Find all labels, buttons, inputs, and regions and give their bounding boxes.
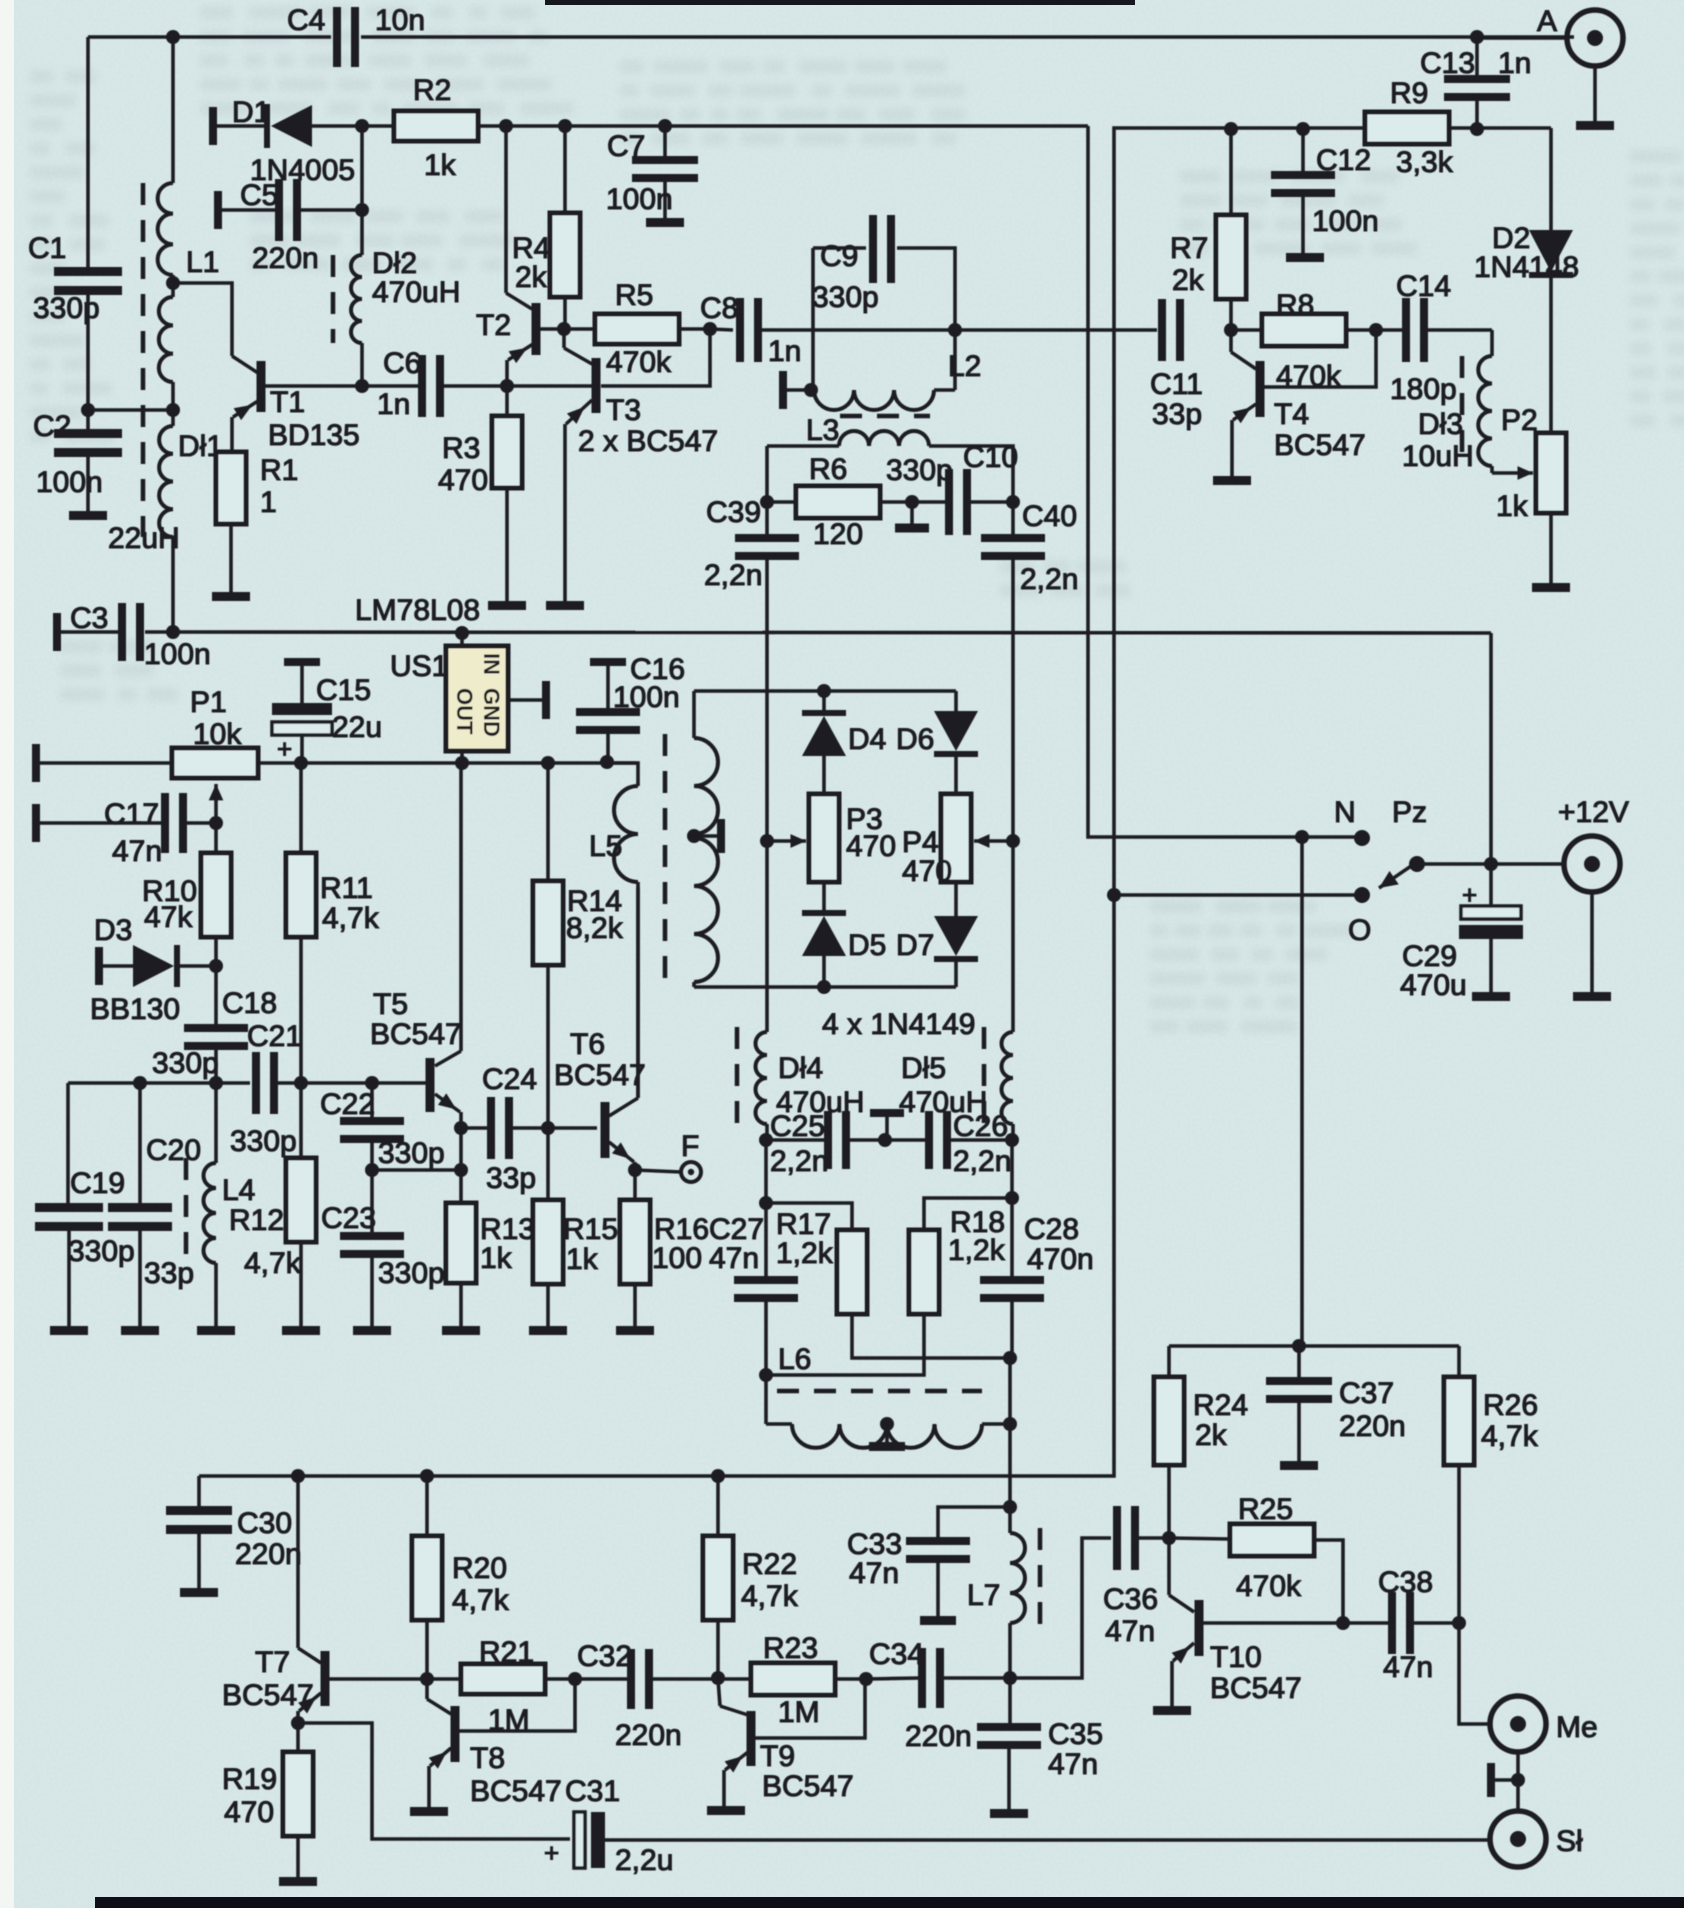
transistor T9 base loop: [755, 1679, 865, 1738]
svg-text:C28: C28: [1024, 1213, 1079, 1246]
svg-text:C39: C39: [706, 496, 761, 529]
wire to Me: [1459, 1623, 1491, 1724]
svg-text:1n: 1n: [768, 335, 801, 368]
transistor T6 collector wire: [609, 887, 638, 1116]
diode D4: [802, 691, 886, 794]
center tap terminal: [870, 1109, 904, 1140]
svg-text:T6: T6: [570, 1028, 605, 1061]
wire P2 wiper: [1492, 466, 1533, 480]
wire y128: [1117, 126, 1551, 130]
connector F: [635, 1130, 701, 1182]
wire +8V rail: [258, 761, 636, 765]
svg-text:47n: 47n: [849, 1557, 899, 1590]
svg-text:L4: L4: [222, 1174, 255, 1207]
node R11/R12: [294, 1076, 308, 1090]
ground R12: [282, 1326, 320, 1335]
capacitor C25: [766, 1110, 885, 1178]
wire D1-node: [312, 124, 362, 128]
resistor R6: [767, 453, 912, 551]
resistor R19: [222, 1723, 313, 1877]
wire N branch down: [1300, 837, 1304, 1346]
svg-text:33p: 33p: [144, 1257, 194, 1290]
capacitor C5: [222, 179, 362, 275]
svg-text:T7: T7: [255, 1646, 290, 1679]
ground L4: [197, 1326, 235, 1335]
capacitor C33: [847, 1507, 1010, 1616]
transistor T2 emitter: [507, 344, 533, 386]
svg-text:330p: 330p: [812, 281, 879, 314]
svg-text:C15: C15: [316, 674, 371, 707]
transistor T9 emitter: [724, 1752, 748, 1806]
inductor L7: [967, 1507, 1025, 1678]
inductor Dł2: [351, 247, 460, 343]
node L6 right: [1003, 1417, 1017, 1431]
node Dl5/C26: [1005, 1133, 1019, 1147]
svg-text:D6: D6: [896, 723, 934, 756]
svg-text:100n: 100n: [606, 183, 673, 216]
svg-text:470: 470: [846, 830, 896, 863]
svg-text:C38: C38: [1378, 1566, 1433, 1599]
svg-text:+: +: [544, 1838, 559, 1868]
svg-text:L6: L6: [778, 1343, 811, 1376]
svg-text:F: F: [681, 1130, 699, 1163]
svg-text:C36: C36: [1103, 1583, 1158, 1616]
transistor T8 base loop: [459, 1679, 575, 1731]
capacitor C35: [977, 1678, 1103, 1809]
node L1-Dl1: [166, 403, 180, 417]
transistor T5: [370, 988, 462, 1112]
svg-text:C10: C10: [963, 441, 1018, 474]
svg-text:T9: T9: [760, 1740, 795, 1773]
US1 GND pin: [508, 681, 550, 719]
svg-text:470u: 470u: [1400, 969, 1467, 1002]
wire C22-R13: [372, 1168, 461, 1172]
svg-text:LM78L08: LM78L08: [355, 594, 480, 627]
svg-text:L5: L5: [589, 830, 622, 863]
svg-text:4,7k: 4,7k: [1481, 1420, 1539, 1453]
node R18 top: [1005, 1191, 1019, 1205]
svg-text:Pz: Pz: [1392, 796, 1427, 829]
capacitor C36: [1103, 1506, 1169, 1648]
svg-text:T1: T1: [270, 386, 305, 419]
inductor L2: [814, 330, 981, 410]
wire bridge bottom: [694, 980, 956, 994]
wire T3 base loop: [601, 329, 710, 386]
capacitor C2: [33, 410, 122, 499]
svg-text:R3: R3: [442, 432, 480, 465]
svg-text:BD135: BD135: [268, 419, 360, 452]
svg-text:47n: 47n: [112, 835, 162, 868]
svg-text:R2: R2: [413, 74, 451, 107]
transistor T5 emitter: [435, 1093, 461, 1128]
wire D1 left: [217, 124, 268, 128]
node Dl4/C25: [759, 1133, 773, 1147]
node Me-Sl bar: [1511, 1773, 1525, 1787]
ground R1: [212, 592, 250, 601]
node R17 top: [759, 1196, 773, 1210]
svg-text:C17: C17: [104, 798, 159, 831]
svg-text:C4: C4: [287, 4, 325, 37]
svg-text:330p: 330p: [68, 1235, 135, 1268]
svg-text:R8: R8: [1276, 289, 1314, 322]
node P1 wiper/C17: [209, 816, 223, 830]
wire D2-P2: [1549, 278, 1553, 433]
capacitor C14: [1376, 270, 1492, 406]
wire C34-C36: [1010, 1538, 1111, 1678]
capacitor C40: [981, 500, 1078, 596]
svg-text:IN: IN: [479, 653, 504, 675]
svg-text:Dł3: Dł3: [1418, 408, 1463, 441]
node C38/R26: [1452, 1616, 1466, 1630]
svg-text:BC547: BC547: [222, 1679, 314, 1712]
ground R3: [488, 601, 526, 610]
svg-text:220n: 220n: [905, 1720, 972, 1753]
svg-text:D4: D4: [848, 723, 886, 756]
wire C24-T6 base: [548, 1126, 597, 1130]
svg-text:L3: L3: [806, 414, 839, 447]
transistor T7 collector wire: [298, 1476, 321, 1663]
svg-text:BC547: BC547: [762, 1770, 854, 1803]
capacitor C9: [812, 215, 895, 314]
node T5e/R13/C23: [454, 1163, 468, 1177]
svg-text:2,2n: 2,2n: [953, 1145, 1011, 1178]
ground C33: [920, 1616, 956, 1625]
svg-text:10n: 10n: [375, 4, 425, 37]
svg-text:D7: D7: [896, 929, 934, 962]
wire +12V rail: [145, 625, 1491, 639]
svg-text:N: N: [1334, 796, 1356, 829]
svg-text:100n: 100n: [36, 466, 103, 499]
transistor T4: [1256, 361, 1366, 462]
ground C37: [1280, 1461, 1318, 1470]
svg-text:1: 1: [260, 486, 277, 519]
svg-text:C11: C11: [1150, 368, 1203, 401]
svg-text:GND: GND: [479, 688, 504, 737]
node US1 OUT/rail: [455, 756, 469, 770]
svg-text:22u: 22u: [332, 711, 382, 744]
ground T3: [546, 601, 584, 610]
connector Sł: [1490, 1811, 1583, 1867]
svg-text:C37: C37: [1339, 1377, 1394, 1410]
inductor L5 primary: [589, 786, 638, 1098]
svg-text:47n: 47n: [709, 1242, 759, 1275]
svg-text:R20: R20: [452, 1552, 507, 1585]
svg-text:C18: C18: [222, 987, 277, 1020]
svg-text:2 x BC547: 2 x BC547: [578, 425, 718, 458]
node C18/L4: [209, 1076, 223, 1090]
capacitor C9 wire: [813, 248, 955, 390]
node T1 base/C6: [355, 379, 369, 393]
ground C7: [646, 218, 684, 227]
svg-text:470k: 470k: [1236, 1570, 1302, 1603]
core L6: [777, 1389, 982, 1394]
transistor T10 emitter: [1172, 1643, 1194, 1706]
transistor T7 base wire: [329, 1677, 427, 1681]
transistor T4 collector wire: [1231, 330, 1256, 369]
svg-text:C34: C34: [869, 1638, 924, 1671]
resistor R2: [362, 74, 506, 182]
svg-text:C9: C9: [820, 240, 858, 273]
svg-text:4 x 1N4149: 4 x 1N4149: [822, 1008, 975, 1041]
wire C40-P4 wiper: [1011, 560, 1015, 841]
svg-text:1k: 1k: [480, 1242, 513, 1275]
capacitor C21: [230, 1020, 302, 1158]
node C25/C26 mid: [878, 1133, 892, 1147]
svg-text:180p: 180p: [1390, 373, 1457, 406]
svg-text:C20: C20: [146, 1134, 201, 1167]
node C22 top: [365, 1076, 379, 1090]
ground R13: [442, 1326, 480, 1335]
svg-text:C2: C2: [33, 410, 71, 443]
ground C29: [1472, 992, 1510, 1001]
svg-text:T4: T4: [1274, 398, 1309, 431]
node T5e/C24: [454, 1121, 468, 1135]
switch Pz lever: [1379, 796, 1427, 888]
transistor T2 base wire: [540, 327, 563, 331]
US1 OUT pin: [460, 751, 464, 763]
inductor Dł4: [756, 841, 865, 1140]
svg-text:R26: R26: [1483, 1389, 1538, 1422]
capacitor C6: [362, 347, 507, 421]
wire link C1C2-L1: [88, 408, 173, 412]
wire left col down: [764, 1140, 768, 1203]
transistor T8 emitter: [429, 1748, 451, 1807]
svg-text:BB130: BB130: [90, 993, 180, 1026]
svg-text:100: 100: [652, 1242, 702, 1275]
ground C19: [50, 1326, 88, 1335]
node R7 top: [1224, 122, 1238, 136]
resistor R12: [229, 1083, 316, 1326]
node R21/C32: [568, 1672, 582, 1686]
wire net O (x1115): [199, 128, 1117, 1476]
transistor T7: [222, 1646, 330, 1712]
transistor T4 emitter: [1232, 404, 1256, 476]
svg-text:33p: 33p: [486, 1162, 536, 1195]
svg-text:470uH: 470uH: [372, 276, 460, 309]
svg-text:120: 120: [813, 518, 863, 551]
wire C31-Sl: [605, 1838, 1490, 1842]
svg-text:C25: C25: [770, 1110, 825, 1143]
svg-text:BC547: BC547: [470, 1775, 562, 1808]
node T7b/R20/R21: [420, 1672, 434, 1686]
svg-text:L7: L7: [967, 1579, 1000, 1612]
ground C12: [1286, 253, 1324, 262]
svg-text:BC547: BC547: [1210, 1672, 1302, 1705]
ground C2: [69, 511, 107, 520]
diode D2: [1474, 128, 1579, 284]
resistor R4: [512, 126, 580, 329]
ground A: [1576, 121, 1614, 130]
transistor T10: [1195, 1600, 1302, 1705]
node L3/R6/C39: [760, 495, 774, 509]
wire Me-Sl: [1516, 1752, 1520, 1812]
connector A: [1477, 5, 1623, 66]
capacitor C10: [886, 441, 1018, 535]
svg-text:2,2n: 2,2n: [1020, 563, 1078, 596]
core L2/L3: [840, 414, 930, 419]
svg-text:R19: R19: [222, 1763, 277, 1796]
node R10/D3/C18: [209, 959, 223, 973]
wire T5e down: [459, 1128, 463, 1170]
inductor L5 secondary: [694, 691, 718, 987]
node T6e/F/R16: [628, 1163, 642, 1177]
core L7: [1038, 1528, 1043, 1628]
capacitor C3 terminal: [53, 613, 61, 651]
capacitor C20: [108, 1083, 201, 1326]
svg-text:470k: 470k: [606, 346, 672, 379]
inductor L4: [203, 1083, 255, 1326]
node C33/L7: [1003, 1500, 1017, 1514]
svg-text:1n: 1n: [377, 388, 410, 421]
potentiometer P3: [809, 794, 896, 882]
capacitor C22: [320, 1083, 445, 1170]
svg-text:P2: P2: [1501, 404, 1538, 437]
node T2e/R3: [500, 379, 514, 393]
svg-text:C40: C40: [1022, 500, 1077, 533]
capacitor C37: [1266, 1346, 1406, 1461]
transistor T1 emitter: [232, 401, 258, 453]
transistor T6 emitter: [609, 1142, 635, 1170]
node R20 top: [420, 1469, 434, 1483]
wire +12V rail right end: [1489, 633, 1493, 864]
ground L6 tap: [869, 1424, 905, 1451]
svg-text:R22: R22: [742, 1548, 797, 1581]
resistor R16: [620, 1170, 709, 1326]
wire x362 column: [355, 126, 369, 255]
node C13 top: [1470, 30, 1484, 44]
resistor R15: [533, 1128, 618, 1326]
capacitor C28: [980, 1198, 1094, 1358]
wire pivot-12V: [1417, 862, 1564, 866]
core L5: [663, 734, 668, 990]
label 4x1N4149: [822, 1008, 975, 1041]
resistor R23: [718, 1632, 866, 1729]
ground P2: [1532, 583, 1570, 592]
wire C1-C2: [81, 290, 95, 434]
transistor T1: [257, 361, 360, 452]
node C36/R24/R25/T10: [1162, 1531, 1176, 1545]
node C10/C40: [1006, 495, 1020, 509]
transistor T1 base wire: [265, 384, 363, 388]
ground C30: [180, 1588, 218, 1597]
ground C20: [121, 1326, 159, 1335]
node C15/rail: [294, 756, 308, 770]
capacitor C7: [606, 126, 698, 218]
svg-text:2k: 2k: [1172, 264, 1205, 297]
transistor T6: [554, 1028, 646, 1158]
potentiometer P4: [902, 794, 971, 888]
svg-text:47n: 47n: [1105, 1615, 1155, 1648]
svg-text:L1: L1: [186, 246, 219, 279]
svg-text:330p: 330p: [152, 1047, 219, 1080]
svg-text:470k: 470k: [1276, 360, 1342, 393]
svg-text:100n: 100n: [1312, 205, 1379, 238]
resistor R13: [446, 1170, 535, 1326]
capacitor C29: [1400, 864, 1523, 1002]
IC US1 label: [355, 594, 480, 627]
node O wire: [1107, 888, 1121, 902]
wire O contact wire: [1114, 893, 1362, 897]
switch Pz contact O: [1348, 887, 1371, 947]
node N-branch: [1295, 830, 1309, 844]
svg-text:R7: R7: [1170, 232, 1208, 265]
resistor R8: [1231, 289, 1376, 393]
svg-text:T3: T3: [606, 394, 641, 427]
ground R15: [529, 1326, 567, 1335]
capacitor C11: [1150, 299, 1203, 431]
capacitor C38: [1343, 1566, 1459, 1684]
resistor R21: [427, 1636, 575, 1737]
svg-text:C3: C3: [70, 602, 108, 635]
svg-text:C6: C6: [383, 347, 421, 380]
capacitor C17: [40, 793, 216, 868]
resistor R11: [286, 763, 380, 1083]
wire C19 lead: [66, 1083, 70, 1203]
svg-text:+: +: [1462, 880, 1477, 910]
node R4/T2b/R5: [557, 322, 571, 336]
svg-text:A: A: [1537, 5, 1557, 38]
wire R24-R26 rail: [1169, 1344, 1459, 1348]
svg-text:1,2k: 1,2k: [948, 1234, 1006, 1267]
node C12 top: [1296, 122, 1310, 136]
svg-text:Dł5: Dł5: [901, 1052, 946, 1085]
inductor Dł1: [108, 426, 223, 555]
svg-text:2,2u: 2,2u: [615, 1844, 673, 1877]
svg-text:C32: C32: [577, 1640, 632, 1673]
core L1: [141, 183, 146, 537]
node US1 IN: [455, 626, 469, 640]
svg-text:2,2n: 2,2n: [770, 1145, 828, 1178]
ground R6/C10 mid: [895, 502, 929, 533]
capacitor C5 terminal: [214, 191, 222, 229]
capacitor C18: [152, 966, 277, 1083]
resistor R26: [1444, 1346, 1539, 1623]
node R9/C13: [1470, 122, 1484, 136]
transistor T4 base loop: [1264, 330, 1376, 387]
switch Pz contact N: [1334, 796, 1370, 846]
capacitor C4: [287, 4, 425, 67]
svg-text:1M: 1M: [778, 1696, 820, 1729]
capacitor C30: [166, 1506, 302, 1588]
capacitor C17 terminal: [32, 804, 40, 842]
connector Me: [1490, 1696, 1598, 1752]
core Dl2: [331, 255, 336, 343]
svg-text:47k: 47k: [144, 901, 193, 934]
svg-text:2k: 2k: [1195, 1419, 1228, 1452]
svg-text:C31: C31: [565, 1775, 620, 1808]
ground T9: [707, 1806, 745, 1815]
svg-text:OUT: OUT: [452, 688, 477, 735]
node R23/C34: [859, 1672, 873, 1686]
svg-text:Dł4: Dł4: [778, 1052, 823, 1085]
node R22 top: [711, 1469, 725, 1483]
node L5 tap: [687, 829, 701, 843]
svg-text:Me: Me: [1556, 1711, 1598, 1744]
resistor R14: [533, 763, 624, 1128]
svg-text:2k: 2k: [515, 261, 548, 294]
wire C8-C11: [813, 323, 1157, 337]
svg-text:100n: 100n: [613, 681, 680, 714]
svg-text:4,7k: 4,7k: [244, 1247, 302, 1280]
capacitor C34: [866, 1638, 1010, 1753]
svg-text:BC547: BC547: [370, 1018, 462, 1051]
transistor T2 collector wire: [506, 126, 532, 309]
svg-text:C23: C23: [321, 1202, 376, 1235]
svg-text:BC547: BC547: [554, 1059, 646, 1092]
node R6/C10: [905, 495, 919, 509]
svg-text:R23: R23: [763, 1632, 818, 1665]
svg-text:C14: C14: [1396, 270, 1451, 303]
